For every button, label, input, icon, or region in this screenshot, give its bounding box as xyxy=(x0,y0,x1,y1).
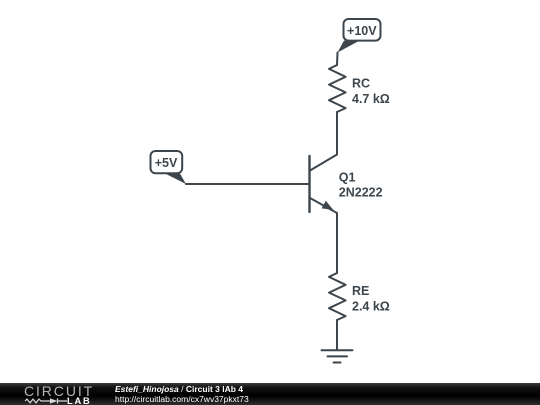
svg-text:2N2222: 2N2222 xyxy=(339,186,383,200)
resistor RC xyxy=(329,65,346,112)
CircuitLab logo CIRCUIT xyxy=(24,383,94,399)
wire: Q1 emitter to RE top xyxy=(336,213,338,273)
supply flag +10V box xyxy=(344,19,381,41)
transistor Q1 emitter diagonal xyxy=(310,198,337,213)
footer line 1: author / title xyxy=(115,384,243,394)
svg-text:+10V: +10V xyxy=(347,24,377,38)
input flag +5V box xyxy=(151,151,183,173)
svg-text:2.4 kΩ: 2.4 kΩ xyxy=(352,300,390,314)
wire: +5V flag to Q1 base xyxy=(186,183,310,185)
CircuitLab logo squiggle xyxy=(24,396,70,405)
ground xyxy=(322,350,353,362)
CircuitLab logo LAB xyxy=(67,396,92,405)
wire: RE bottom to ground xyxy=(336,320,338,350)
svg-text:RC: RC xyxy=(352,77,370,91)
wire: RC bottom to Q1 collector xyxy=(336,112,338,155)
transistor Q1 base bar xyxy=(308,156,310,212)
svg-text:4.7 kΩ: 4.7 kΩ xyxy=(352,92,390,106)
svg-text:RE: RE xyxy=(352,284,369,298)
resistor RE xyxy=(329,273,346,320)
input flag +5V pointer xyxy=(164,173,187,184)
svg-text:Q1: Q1 xyxy=(339,171,356,185)
transistor Q1 emitter arrow xyxy=(322,201,334,210)
svg-text:+5V: +5V xyxy=(155,156,178,170)
supply flag +10V pointer xyxy=(338,41,360,53)
transistor Q1 collector diagonal xyxy=(310,155,337,171)
footer line 2: url xyxy=(115,394,249,404)
wire: +10V flag to RC top xyxy=(336,53,339,66)
footer bar xyxy=(0,383,540,405)
